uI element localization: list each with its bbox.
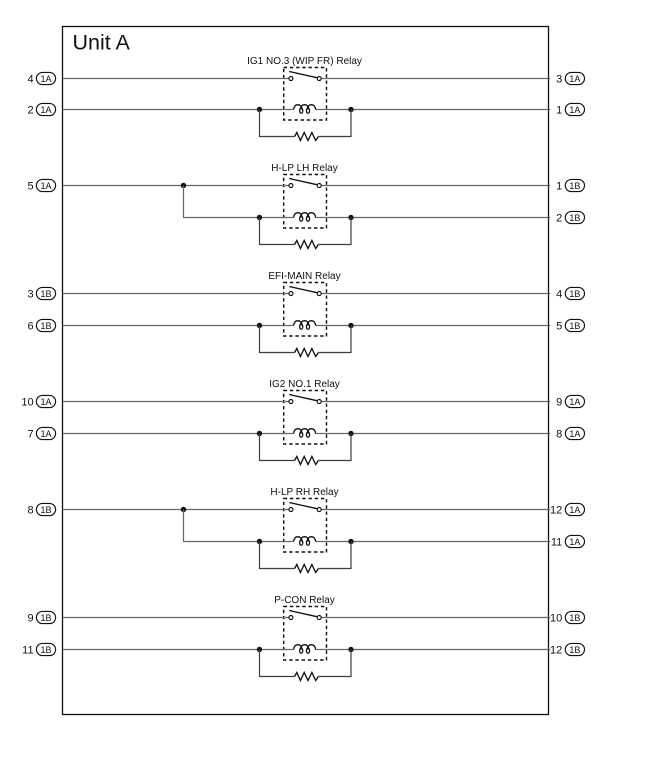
svg-text:3: 3	[27, 288, 33, 300]
relay K2 dashed outline	[284, 175, 327, 229]
svg-text:H-LP LH Relay: H-LP LH Relay	[271, 163, 338, 174]
relay K6 dashed outline	[284, 607, 327, 661]
resistor R5 (parallel with coil)	[295, 565, 319, 573]
svg-text:1B: 1B	[569, 321, 580, 331]
svg-text:1B: 1B	[40, 505, 51, 515]
wire: left pin 6 to relay K3 coil	[63, 325, 294, 327]
relay K2 switch contact circles	[289, 184, 293, 188]
wire: relay K1 coil to right pin 1	[316, 109, 551, 111]
junction dots for resistor branch of relay K1	[257, 107, 262, 112]
svg-text:1A: 1A	[569, 397, 580, 407]
wire: relay K4 coil to right pin 8	[316, 433, 551, 435]
svg-text:H-LP RH Relay: H-LP RH Relay	[270, 487, 338, 498]
relay K5 dashed outline	[284, 499, 327, 553]
wire: resistor branch left riser of relay K3	[260, 326, 295, 353]
svg-text:1B: 1B	[569, 213, 580, 223]
svg-text:EFI-MAIN Relay: EFI-MAIN Relay	[268, 271, 340, 282]
svg-text:1B: 1B	[40, 289, 51, 299]
wire: relay K5 switch to right pin 12	[321, 509, 550, 511]
relay K1 coil	[294, 105, 316, 110]
svg-text:11: 11	[22, 644, 33, 656]
Unit A enclosure box	[63, 27, 549, 715]
svg-text:8: 8	[556, 428, 562, 440]
svg-text:9: 9	[27, 612, 33, 624]
svg-text:IG1 NO.3 (WIP FR) Relay: IG1 NO.3 (WIP FR) Relay	[247, 56, 362, 67]
svg-text:1B: 1B	[569, 645, 580, 655]
svg-text:1B: 1B	[40, 645, 51, 655]
wire: relay K6 coil to right pin 12	[316, 649, 551, 651]
svg-text:5: 5	[556, 320, 562, 332]
relay K1 switch blade	[289, 72, 317, 78]
wire: resistor branch left riser of relay K5	[260, 542, 295, 569]
resistor R4 (parallel with coil)	[295, 457, 319, 465]
svg-text:1A: 1A	[569, 105, 580, 115]
wire: left pin 7 to relay K4 coil	[63, 433, 294, 435]
svg-text:3: 3	[556, 73, 562, 85]
svg-text:9: 9	[556, 396, 562, 408]
relay K3 dashed outline	[284, 283, 327, 337]
wire: resistor branch right riser of relay K3	[318, 326, 351, 353]
svg-text:1B: 1B	[40, 321, 51, 331]
wire: resistor branch left riser of relay K1	[260, 110, 295, 137]
wire: left pin 11 to relay K6 coil	[63, 649, 294, 651]
relay K5 switch blade	[289, 503, 317, 509]
svg-text:1A: 1A	[40, 397, 51, 407]
svg-text:12: 12	[550, 644, 562, 656]
relay K2 coil	[294, 213, 316, 218]
wire: left pin 10 to relay K4 switch	[63, 401, 289, 403]
wire: vertical drop to coil of relay K5	[184, 510, 294, 542]
wire: relay K6 switch to right pin 10	[321, 617, 550, 619]
wire: resistor branch right riser of relay K5	[318, 542, 351, 569]
svg-text:7: 7	[27, 428, 33, 440]
junction dots for resistor branch of relay K2	[257, 215, 262, 220]
wire: relay K2 coil to right pin 2	[316, 217, 551, 219]
svg-text:1A: 1A	[40, 429, 51, 439]
svg-text:1A: 1A	[40, 74, 51, 84]
svg-text:10: 10	[550, 612, 562, 624]
relay K3 coil	[294, 321, 316, 326]
svg-text:1A: 1A	[569, 505, 580, 515]
junction dots for resistor branch of relay K3	[257, 323, 262, 328]
wire: left pin 8 to relay K5 switch	[63, 509, 289, 511]
svg-text:1: 1	[556, 104, 562, 116]
resistor R6 (parallel with coil)	[295, 673, 319, 681]
wire: resistor branch right riser of relay K1	[318, 110, 351, 137]
relay K6 coil	[294, 645, 316, 650]
relay K5 switch contact circles	[289, 508, 293, 512]
relay K4 switch blade	[289, 395, 317, 401]
svg-text:Unit A: Unit A	[73, 31, 131, 55]
svg-text:11: 11	[551, 536, 562, 548]
relay K6 switch blade	[289, 611, 317, 617]
resistor R1 (parallel with coil)	[295, 133, 319, 141]
wire: resistor branch right riser of relay K4	[318, 434, 351, 461]
wire: relay K3 switch to right pin 4	[321, 293, 550, 295]
svg-text:P-CON Relay: P-CON Relay	[274, 595, 335, 606]
junction dot on switch wire of relay K2	[181, 183, 186, 188]
wire: left pin 2 to relay K1 coil	[63, 109, 294, 111]
resistor R2 (parallel with coil)	[295, 241, 319, 249]
relay K5 coil	[294, 537, 316, 542]
svg-text:1A: 1A	[40, 105, 51, 115]
wire: left pin 9 to relay K6 switch	[63, 617, 289, 619]
svg-text:10: 10	[21, 396, 33, 408]
relay K1 dashed outline	[284, 68, 327, 121]
svg-text:1A: 1A	[569, 537, 580, 547]
svg-text:1A: 1A	[40, 181, 51, 191]
junction dots for resistor branch of relay K6	[257, 647, 262, 652]
svg-text:6: 6	[27, 320, 33, 332]
wire: resistor branch left riser of relay K2	[260, 218, 295, 245]
junction dots for resistor branch of relay K5	[257, 539, 262, 544]
svg-text:8: 8	[27, 504, 33, 516]
svg-text:1B: 1B	[569, 181, 580, 191]
svg-text:IG2 NO.1 Relay: IG2 NO.1 Relay	[269, 379, 340, 390]
wire: left pin 5 to relay K2 switch	[63, 185, 289, 187]
wire: left pin 3 to relay K3 switch	[63, 293, 289, 295]
svg-text:4: 4	[556, 288, 562, 300]
resistor R3 (parallel with coil)	[295, 349, 319, 357]
wire: relay K5 coil to right pin 11	[316, 541, 551, 543]
wire: resistor branch right riser of relay K6	[318, 650, 351, 677]
wire: left pin 4 to relay K1 switch	[63, 78, 289, 80]
wire: vertical drop to coil of relay K2	[184, 186, 294, 218]
svg-text:5: 5	[27, 180, 33, 192]
wire: relay K1 switch to right pin 3	[321, 78, 550, 80]
svg-text:1: 1	[556, 180, 562, 192]
relay K3 switch contact circles	[289, 292, 293, 296]
svg-text:2: 2	[27, 104, 33, 116]
svg-text:1A: 1A	[569, 74, 580, 84]
wire: relay K3 coil to right pin 5	[316, 325, 551, 327]
wire: relay K4 switch to right pin 9	[321, 401, 550, 403]
svg-text:2: 2	[556, 212, 562, 224]
svg-text:12: 12	[550, 504, 562, 516]
wire: resistor branch right riser of relay K2	[318, 218, 351, 245]
junction dot on switch wire of relay K5	[181, 507, 186, 512]
relay K4 coil	[294, 429, 316, 434]
svg-text:1B: 1B	[569, 613, 580, 623]
svg-text:4: 4	[27, 73, 33, 85]
relay K1 switch contact circles	[289, 77, 293, 81]
relay K2 switch blade	[289, 179, 317, 185]
wire: resistor branch left riser of relay K6	[260, 650, 295, 677]
svg-text:1A: 1A	[569, 429, 580, 439]
wire: relay K2 switch to right pin 1	[321, 185, 550, 187]
svg-text:1B: 1B	[40, 613, 51, 623]
svg-text:1B: 1B	[569, 289, 580, 299]
relay K3 switch blade	[289, 287, 317, 293]
junction dots for resistor branch of relay K4	[257, 431, 262, 436]
relay K4 dashed outline	[284, 391, 327, 445]
wire: resistor branch left riser of relay K4	[260, 434, 295, 461]
relay K6 switch contact circles	[289, 616, 293, 620]
relay K4 switch contact circles	[289, 400, 293, 404]
